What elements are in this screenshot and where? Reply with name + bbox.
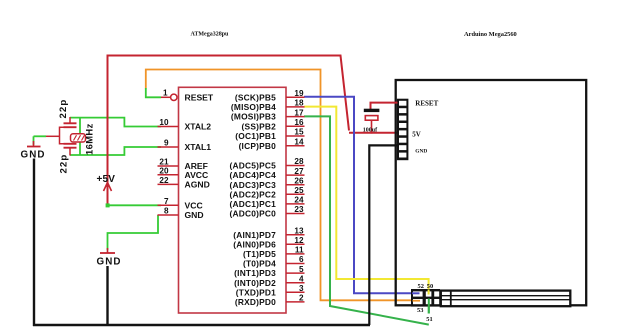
pin 4 (INT0)PD2 xyxy=(234,274,304,287)
wire blue tail into pin 52 xyxy=(412,292,420,294)
wire orange tail into pin 53 xyxy=(413,300,421,302)
power symbol +5V xyxy=(97,174,116,191)
svg-text:51: 51 xyxy=(426,316,432,323)
svg-text:(SS)PB2: (SS)PB2 xyxy=(242,121,277,131)
pin 2 (RXD)PD0 xyxy=(235,294,305,307)
wire green tail pin 51 xyxy=(428,299,430,314)
svg-text:100uf: 100uf xyxy=(363,127,378,133)
svg-text:(INT1)PD3: (INT1)PD3 xyxy=(234,268,276,278)
capacitor C1 22p (top) xyxy=(64,117,77,127)
svg-text:(ADC5)PC5: (ADC5)PC5 xyxy=(230,161,277,171)
pin 23 (ADC0)PC0 xyxy=(230,205,305,218)
capacitor C2 22p (bottom) xyxy=(64,144,77,156)
svg-text:GND: GND xyxy=(415,149,427,155)
connector J2 small 2x2 header (50/51/52/53) xyxy=(411,289,440,307)
svg-text:(OC1)PB1: (OC1)PB1 xyxy=(235,131,276,141)
crystal X1 16MHz body xyxy=(71,134,86,142)
svg-text:XTAL2: XTAL2 xyxy=(185,122,212,132)
pin 25 (ADC2)PC2 xyxy=(230,186,305,199)
svg-text:(T1)PD5: (T1)PD5 xyxy=(243,249,276,259)
pin 10 XTAL2 xyxy=(158,118,212,131)
wire green to GND1 xyxy=(34,135,47,137)
pin-label 5V (Arduino) xyxy=(412,131,421,139)
pin 1 RESET stub with inversion circle xyxy=(161,89,177,101)
svg-text:(AIN0)PD6: (AIN0)PD6 xyxy=(233,239,276,249)
wire cap ground bracket xyxy=(46,127,64,144)
svg-text:14: 14 xyxy=(294,137,304,146)
svg-text:(TXD)PD1: (TXD)PD1 xyxy=(236,287,276,297)
svg-text:(ADC0)PC0: (ADC0)PC0 xyxy=(230,209,277,219)
svg-text:(ADC4)PC4: (ADC4)PC4 xyxy=(230,170,277,180)
label 52 50 xyxy=(418,283,434,290)
svg-text:(RXD)PD0: (RXD)PD0 xyxy=(235,297,276,307)
svg-text:(T0)PD4: (T0)PD4 xyxy=(243,259,276,269)
pin 18 (MISO)PB4 xyxy=(231,99,305,112)
svg-text:5: 5 xyxy=(299,265,304,274)
svg-text:11: 11 xyxy=(295,246,304,255)
svg-text:16: 16 xyxy=(294,118,304,127)
pin 22 AGND xyxy=(158,176,210,189)
svg-text:XTAL1: XTAL1 xyxy=(185,142,212,152)
svg-text:22: 22 xyxy=(159,176,169,185)
pin 16 (SS)PB2 xyxy=(242,118,305,131)
svg-text:7: 7 xyxy=(164,197,169,206)
wire green GND from pin 8 xyxy=(108,215,159,250)
svg-text:(ADC3)PC3: (ADC3)PC3 xyxy=(230,180,277,190)
svg-text:(INT0)PD2: (INT0)PD2 xyxy=(234,278,276,288)
wire yellow tail into pin 50 xyxy=(428,290,430,295)
pin 6 (T0)PD4 xyxy=(243,255,305,268)
node +5V junction xyxy=(106,203,110,207)
pin 19 (SCK)PB5 xyxy=(235,89,305,102)
svg-text:6: 6 xyxy=(299,255,304,264)
svg-text:23: 23 xyxy=(294,205,304,214)
pin-label GND (Arduino) xyxy=(415,149,427,155)
svg-text:2: 2 xyxy=(299,294,304,303)
pin 21 AREF xyxy=(158,158,208,171)
pin 28 (ADC5)PC5 xyxy=(230,157,305,170)
pin 17 (MOSI)PB3 xyxy=(231,108,305,121)
wire black from Arduino GND pin xyxy=(369,145,403,325)
pin 11 (T1)PD5 xyxy=(243,246,305,259)
wire yellow MISO pin18 to Arduino 50 xyxy=(304,107,429,294)
svg-text:18: 18 xyxy=(294,99,304,108)
pin 5 (INT1)PD3 xyxy=(234,265,304,278)
wire +5V red top loop from Arduino 5V to +5V rail xyxy=(108,56,399,206)
svg-text:(ADC1)PC1: (ADC1)PC1 xyxy=(230,199,277,209)
svg-text:20: 20 xyxy=(159,167,169,176)
label 16MHz xyxy=(84,123,95,155)
pin 15 (OC1)PB1 xyxy=(235,128,304,141)
pin 8 GND xyxy=(158,207,204,220)
svg-text:19: 19 xyxy=(294,89,304,98)
pin 3 (TXD)PD1 xyxy=(236,284,305,297)
svg-text:(MISO)PB4: (MISO)PB4 xyxy=(231,102,276,112)
wire +5V rail overlay xyxy=(107,110,109,162)
label 100uf xyxy=(363,127,378,133)
svg-text:GND: GND xyxy=(185,210,204,220)
ground GND1 left of crystal xyxy=(21,136,46,326)
wire black ground bus bottom xyxy=(33,324,370,327)
wire crystal parallel branch xyxy=(79,118,81,155)
svg-text:17: 17 xyxy=(294,108,304,117)
ground GND2 below +5V xyxy=(97,248,122,326)
title Arduino Mega2560 xyxy=(464,31,517,38)
connector J3 long bottom header xyxy=(441,291,571,307)
svg-text:10: 10 xyxy=(159,118,169,127)
svg-text:13: 13 xyxy=(294,226,304,235)
svg-text:3: 3 xyxy=(299,284,304,293)
label 22p top xyxy=(58,99,69,119)
capacitor C3 100uf xyxy=(364,109,380,134)
pin 27 (ADC4)PC4 xyxy=(230,167,305,180)
IC U1 ATMega328 body xyxy=(179,87,287,313)
pin 20 AVCC xyxy=(158,167,209,180)
svg-text:27: 27 xyxy=(294,167,304,176)
svg-text:(SCK)PB5: (SCK)PB5 xyxy=(235,92,276,102)
svg-text:26: 26 xyxy=(294,176,304,185)
svg-text:53: 53 xyxy=(417,307,423,314)
wire green stub pin 51 xyxy=(428,298,430,314)
svg-text:21: 21 xyxy=(159,158,169,167)
svg-text:VCC: VCC xyxy=(185,200,203,210)
svg-text:15: 15 xyxy=(294,128,304,137)
pin 26 (ADC3)PC3 xyxy=(230,176,305,189)
wire orange from ATMega pin1 reset to Arduino pin 53 xyxy=(146,70,420,301)
wire green MOSI pin17 to Arduino 51 xyxy=(304,116,429,324)
connector J1 vertical header (RESET/5V/GND) xyxy=(397,99,409,161)
svg-text:RESET: RESET xyxy=(415,99,438,107)
wire bottom node to XTAL1 xyxy=(70,147,161,155)
svg-text:AVCC: AVCC xyxy=(185,170,209,180)
title ATMega328pu xyxy=(191,32,230,38)
IC Arduino Mega2560 board outline xyxy=(396,80,587,305)
pin 13 (AIN1)PD7 xyxy=(233,226,304,239)
label 53 xyxy=(417,307,423,314)
svg-text:(ADC2)PC2: (ADC2)PC2 xyxy=(230,189,277,199)
svg-text:12: 12 xyxy=(294,236,304,245)
pin 9 XTAL1 xyxy=(158,139,212,152)
svg-text:9: 9 xyxy=(164,139,169,148)
svg-text:50: 50 xyxy=(427,283,433,290)
wire blue SCK pin19 to Arduino 52 xyxy=(304,97,420,293)
svg-text:(ICP)PB0: (ICP)PB0 xyxy=(239,141,277,151)
svg-text:24: 24 xyxy=(294,196,304,205)
label 22p bottom xyxy=(59,154,70,174)
svg-text:52: 52 xyxy=(418,283,424,290)
pin 7 VCC xyxy=(158,197,203,210)
svg-text:28: 28 xyxy=(294,157,304,166)
wire green stub at pin1 xyxy=(146,88,161,97)
wire red RESET net to header xyxy=(371,103,398,109)
pin-label RESET (Arduino) xyxy=(415,99,438,107)
svg-text:5V: 5V xyxy=(412,131,421,139)
svg-text:8: 8 xyxy=(164,207,169,216)
pin-label RESET xyxy=(185,92,214,102)
wire green VCC from +5V junction to pin 7 xyxy=(108,204,162,206)
pin 24 (ADC1)PC1 xyxy=(230,196,305,209)
label 51 xyxy=(426,316,432,323)
crystal circuit: top node wire to XTAL2 xyxy=(70,118,161,127)
pin 12 (AIN0)PD6 xyxy=(233,236,304,249)
svg-text:25: 25 xyxy=(294,186,304,195)
svg-text:4: 4 xyxy=(299,274,304,283)
pin 14 (ICP)PB0 xyxy=(239,137,305,150)
svg-text:RESET: RESET xyxy=(185,92,214,102)
svg-text:(MOSI)PB3: (MOSI)PB3 xyxy=(231,112,276,122)
svg-text:(AIN1)PD7: (AIN1)PD7 xyxy=(233,230,276,240)
svg-text:AGND: AGND xyxy=(185,180,210,190)
